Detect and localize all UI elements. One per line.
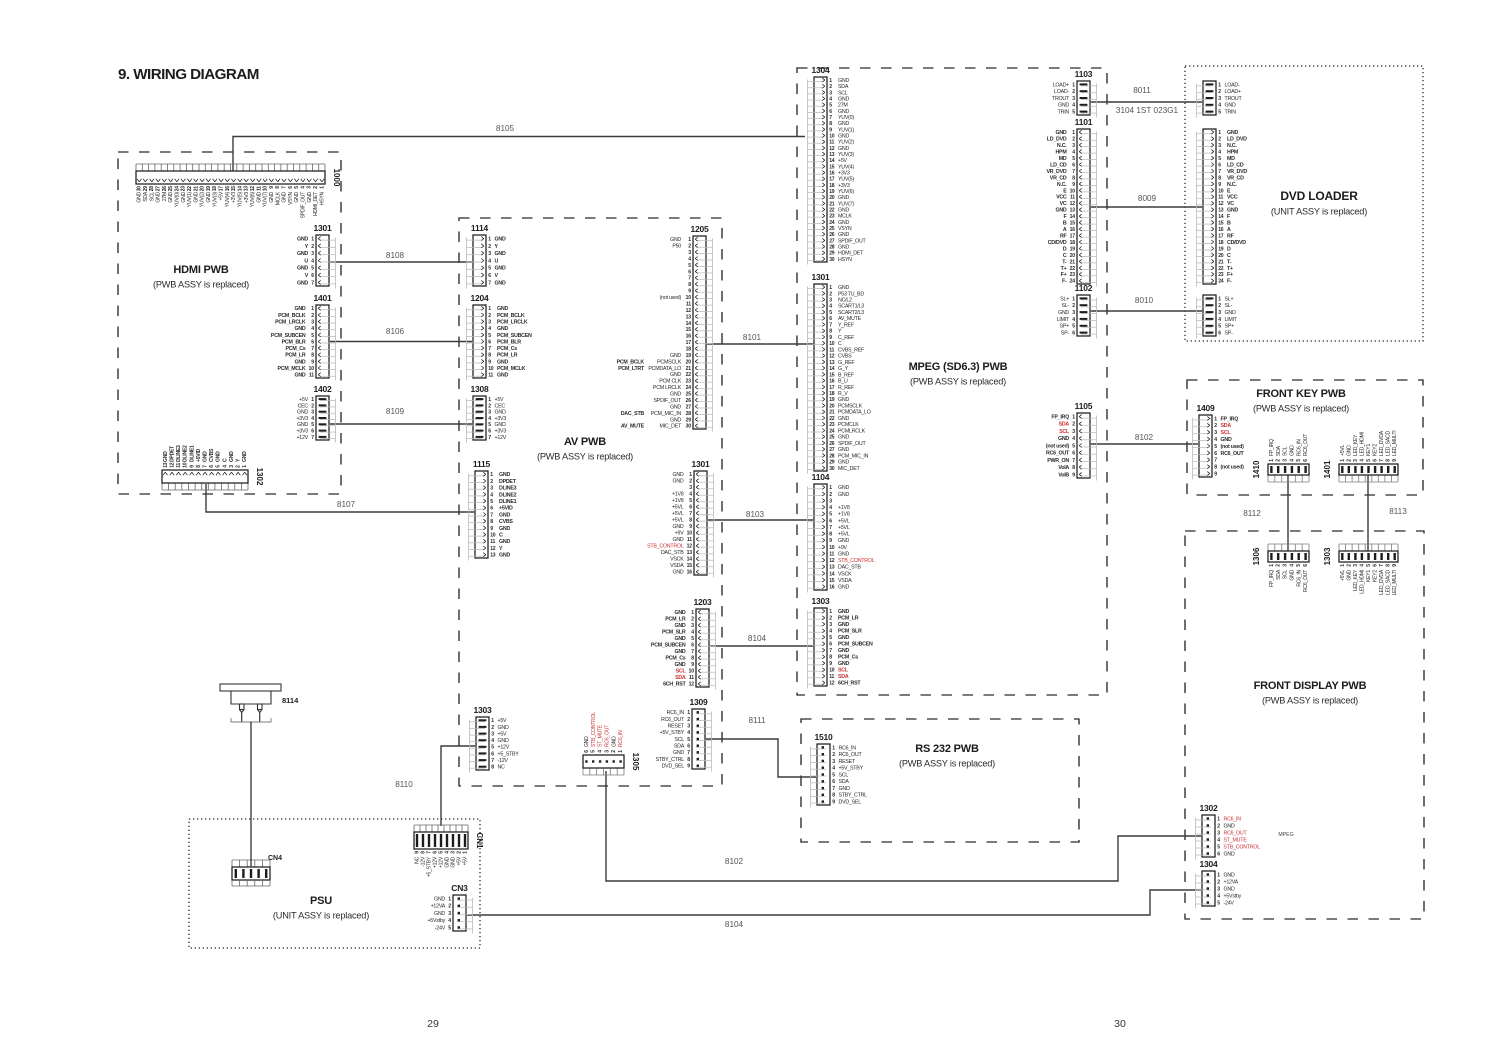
svg-text:DAC_STB: DAC_STB (621, 411, 645, 417)
svg-text:CD/DVD: CD/DVD (1227, 240, 1246, 246)
svg-text:SL+: SL+ (1225, 296, 1234, 302)
svg-text:4: 4 (832, 766, 835, 772)
svg-text:16: 16 (1070, 227, 1076, 233)
svg-text:8: 8 (691, 656, 694, 662)
svg-text:16: 16 (687, 570, 693, 576)
svg-text:+1V8: +1V8 (838, 505, 850, 511)
svg-text:2: 2 (311, 244, 314, 250)
svg-text:25: 25 (829, 226, 835, 232)
svg-text:4: 4 (687, 730, 690, 736)
svg-text:5: 5 (832, 772, 835, 778)
svg-text:SDA: SDA (838, 674, 849, 680)
svg-text:PCM_BCLK: PCM_BCLK (497, 313, 525, 319)
svg-text:PCMDATA_LO: PCMDATA_LO (648, 366, 681, 372)
svg-text:GND: GND (838, 78, 849, 84)
svg-text:13: 13 (244, 186, 250, 192)
svg-text:8: 8 (829, 329, 832, 335)
svg-text:6: 6 (490, 506, 493, 512)
svg-text:16: 16 (1218, 227, 1224, 233)
svg-text:DAC_STB: DAC_STB (838, 565, 861, 571)
block border DVD LOADER (1185, 66, 1423, 341)
svg-text:A: A (1227, 227, 1231, 233)
svg-text:RC6_OUT: RC6_OUT (1303, 570, 1309, 592)
svg-text:TROUT: TROUT (1052, 96, 1070, 102)
svg-text:GND: GND (838, 220, 849, 226)
svg-text:13: 13 (1070, 208, 1076, 214)
svg-text:3: 3 (691, 623, 694, 629)
connector 1309 (656, 697, 712, 772)
svg-text:8101: 8101 (743, 333, 762, 342)
svg-text:(not used): (not used) (660, 295, 682, 301)
svg-text:3: 3 (689, 485, 692, 491)
svg-text:T+: T+ (1061, 266, 1067, 272)
svg-text:MCLK: MCLK (838, 214, 852, 220)
svg-text:GND: GND (838, 622, 849, 628)
svg-text:23: 23 (1070, 272, 1076, 278)
svg-text:8: 8 (689, 518, 692, 524)
svg-text:SDA: SDA (838, 84, 849, 90)
svg-text:(PWB ASSY is replaced): (PWB ASSY is replaced) (1253, 404, 1349, 414)
svg-text:PCM_Cs: PCM_Cs (497, 346, 517, 352)
svg-text:6: 6 (488, 428, 491, 434)
svg-text:GND: GND (1224, 851, 1235, 857)
svg-text:YUV(7): YUV(7) (838, 201, 854, 207)
svg-text:6: 6 (1072, 451, 1075, 457)
svg-text:RC6_OUT: RC6_OUT (1224, 830, 1248, 836)
svg-text:HSYN: HSYN (319, 191, 325, 205)
svg-text:6: 6 (689, 505, 692, 511)
svg-text:GND: GND (1055, 130, 1066, 136)
svg-text:7: 7 (488, 346, 491, 352)
svg-text:13: 13 (829, 360, 835, 366)
svg-text:8109: 8109 (386, 407, 405, 416)
svg-text:1410: 1410 (1252, 460, 1261, 478)
svg-text:6: 6 (488, 273, 491, 279)
svg-text:GND: GND (838, 447, 849, 453)
svg-text:GND: GND (838, 538, 849, 544)
svg-text:LED_KEY: LED_KEY (1353, 569, 1359, 591)
svg-text:5: 5 (688, 263, 691, 269)
svg-text:4: 4 (488, 326, 491, 332)
svg-text:3: 3 (490, 486, 493, 492)
svg-text:6: 6 (311, 273, 314, 279)
svg-text:+5V: +5V (299, 397, 309, 403)
svg-text:2: 2 (311, 313, 314, 319)
svg-text:VSYN: VSYN (288, 191, 294, 204)
svg-text:LIMIT: LIMIT (1057, 317, 1070, 323)
svg-text:6CH_RST: 6CH_RST (838, 681, 861, 687)
svg-text:C: C (1227, 253, 1231, 259)
svg-text:CD/DVD: CD/DVD (1048, 240, 1067, 246)
svg-text:SCART2/L3: SCART2/L3 (838, 310, 864, 316)
svg-text:20: 20 (1070, 253, 1076, 259)
svg-text:8: 8 (1214, 465, 1217, 471)
svg-text:13: 13 (686, 314, 692, 320)
svg-text:NC/L2: NC/L2 (838, 297, 852, 303)
wire 8113 (1367, 475, 1369, 551)
svg-text:CEC: CEC (298, 403, 309, 409)
svg-text:GND: GND (434, 911, 445, 917)
svg-text:GND: GND (495, 410, 506, 416)
svg-text:6: 6 (829, 642, 832, 648)
svg-text:8114: 8114 (282, 696, 299, 705)
svg-text:DPDET: DPDET (169, 445, 175, 462)
svg-text:GND: GND (838, 96, 849, 102)
connector 1301 MPEG (808, 272, 871, 474)
svg-text:22: 22 (829, 416, 835, 422)
svg-text:C: C (838, 341, 842, 347)
svg-text:+5V: +5V (219, 191, 225, 200)
svg-text:16: 16 (686, 334, 692, 340)
svg-text:7: 7 (311, 346, 314, 352)
svg-text:DVD_SEL: DVD_SEL (662, 764, 685, 770)
svg-text:9: 9 (829, 661, 832, 667)
svg-text:PCM_SLR: PCM_SLR (662, 630, 686, 636)
svg-text:12: 12 (490, 546, 496, 552)
svg-text:3: 3 (448, 911, 451, 917)
svg-text:3: 3 (829, 622, 832, 628)
svg-text:27M: 27M (162, 192, 168, 201)
svg-text:4: 4 (488, 258, 491, 264)
svg-text:LIMIT: LIMIT (1225, 317, 1238, 323)
svg-text:+12VA: +12VA (1224, 879, 1239, 885)
svg-text:7: 7 (829, 648, 832, 654)
svg-text:+5V_STBY: +5V_STBY (660, 730, 685, 736)
svg-text:7: 7 (490, 512, 493, 518)
connector 1510 (811, 732, 868, 808)
svg-text:24: 24 (174, 186, 180, 192)
svg-text:24: 24 (1218, 279, 1224, 285)
block border MPEG (SD6.3) PWB (797, 68, 1107, 695)
svg-text:1105: 1105 (1075, 401, 1093, 411)
svg-text:19: 19 (686, 353, 692, 359)
svg-text:7: 7 (687, 750, 690, 756)
svg-text:GND: GND (838, 146, 849, 152)
svg-text:9: 9 (1072, 472, 1075, 478)
svg-text:RESET: RESET (839, 759, 856, 765)
svg-text:+3V3: +3V3 (495, 416, 507, 422)
svg-text:SCL: SCL (839, 772, 849, 778)
svg-text:PCM CLK: PCM CLK (659, 379, 682, 385)
svg-text:YUV(1): YUV(1) (187, 191, 193, 207)
svg-text:GND: GND (838, 492, 849, 498)
svg-text:DLINE3: DLINE3 (176, 445, 182, 462)
svg-text:CVBS: CVBS (838, 354, 852, 360)
svg-text:27: 27 (156, 186, 162, 192)
svg-text:4: 4 (1072, 150, 1075, 156)
svg-text:1308: 1308 (470, 384, 489, 394)
connector 1303 FRONT DISPLAY (1323, 544, 1398, 595)
connector CN3 (427, 883, 472, 934)
svg-text:8111: 8111 (749, 716, 766, 725)
connector 1402 HDMI (296, 384, 335, 443)
svg-text:+5VL: +5VL (672, 505, 684, 511)
svg-text:+5VL: +5VL (838, 532, 850, 538)
wire 8107 (206, 484, 474, 512)
svg-text:17: 17 (219, 186, 225, 192)
svg-text:SCL: SCL (149, 192, 155, 202)
svg-text:KEY2: KEY2 (1373, 444, 1379, 456)
svg-text:GND: GND (670, 404, 681, 410)
svg-text:VCC: VCC (1056, 195, 1067, 201)
svg-text:GND: GND (297, 251, 308, 257)
svg-text:TRIN: TRIN (1058, 110, 1070, 116)
svg-text:4: 4 (1218, 103, 1221, 109)
svg-text:PCM_BCLK: PCM_BCLK (278, 313, 306, 319)
svg-text:VSDA: VSDA (838, 578, 852, 584)
svg-text:SDA: SDA (839, 779, 850, 785)
svg-text:10: 10 (829, 545, 835, 551)
svg-text:LED_SACD: LED_SACD (1386, 431, 1392, 456)
svg-text:7: 7 (488, 280, 491, 286)
svg-text:GND: GND (497, 359, 508, 365)
svg-text:3: 3 (829, 297, 832, 303)
svg-text:+5V: +5V (498, 718, 508, 724)
svg-text:1: 1 (687, 710, 690, 716)
svg-text:SCL: SCL (1283, 570, 1289, 580)
svg-text:19: 19 (1218, 246, 1224, 252)
svg-text:3: 3 (829, 90, 832, 96)
svg-text:1: 1 (488, 237, 491, 243)
svg-text:5: 5 (829, 103, 832, 109)
svg-text:GND: GND (137, 191, 143, 202)
svg-text:6CH_RST: 6CH_RST (663, 682, 686, 688)
svg-text:4: 4 (311, 326, 314, 332)
svg-text:2: 2 (311, 403, 314, 409)
svg-text:YUV(5): YUV(5) (237, 191, 243, 207)
wire 8109 (330, 423, 472, 425)
svg-text:GND: GND (297, 237, 308, 243)
svg-text:1: 1 (1214, 416, 1217, 422)
svg-text:LD_DVD: LD_DVD (1227, 137, 1247, 143)
svg-text:12: 12 (1218, 201, 1224, 207)
svg-text:MD: MD (1059, 156, 1067, 162)
svg-text:+3V3: +3V3 (231, 192, 237, 203)
svg-text:U: U (304, 258, 308, 264)
svg-text:HDMI PWB: HDMI PWB (173, 264, 228, 276)
svg-text:+5Vstby: +5Vstby (427, 918, 445, 924)
svg-text:3: 3 (488, 319, 491, 325)
svg-text:LED_DVDA: LED_DVDA (1379, 430, 1385, 456)
svg-text:6: 6 (1072, 330, 1075, 336)
svg-text:PCM_LRCLK: PCM_LRCLK (275, 319, 306, 325)
svg-text:SCL: SCL (1221, 430, 1232, 436)
svg-text:PCM_MIC_IN: PCM_MIC_IN (838, 453, 869, 459)
svg-text:8: 8 (832, 793, 835, 799)
svg-text:+5VL: +5VL (672, 518, 684, 524)
svg-text:1: 1 (829, 78, 832, 84)
svg-text:5: 5 (1218, 156, 1221, 162)
svg-text:6: 6 (311, 428, 314, 434)
svg-text:7: 7 (832, 786, 835, 792)
svg-text:YUV(2): YUV(2) (200, 191, 206, 207)
svg-text:11: 11 (687, 537, 692, 543)
svg-text:GND: GND (297, 410, 308, 416)
svg-text:2: 2 (491, 725, 494, 731)
svg-text:10: 10 (686, 295, 692, 301)
svg-text:DAC_STB: DAC_STB (661, 550, 684, 556)
svg-text:18: 18 (1070, 240, 1076, 246)
svg-text:7: 7 (311, 435, 314, 441)
svg-text:GND: GND (282, 191, 288, 202)
svg-text:STBY_CTRL: STBY_CTRL (839, 793, 868, 799)
svg-text:GND: GND (498, 738, 509, 744)
svg-text:STB_CONTROL: STB_CONTROL (647, 544, 684, 550)
svg-text:DLINE1: DLINE1 (189, 445, 195, 462)
svg-text:LOAD-: LOAD- (1225, 82, 1240, 88)
svg-text:16: 16 (829, 585, 835, 591)
svg-text:13: 13 (829, 565, 835, 571)
svg-text:5: 5 (1217, 900, 1220, 906)
svg-text:8113: 8113 (1389, 507, 1407, 516)
svg-text:22: 22 (686, 372, 692, 378)
svg-text:RF: RF (1227, 233, 1235, 239)
svg-text:GND: GND (670, 372, 681, 378)
svg-text:GND: GND (1227, 130, 1238, 136)
connector 1305 (583, 712, 640, 775)
svg-text:F+: F+ (1227, 272, 1233, 278)
svg-text:GND: GND (672, 570, 683, 576)
svg-text:10: 10 (829, 133, 835, 139)
svg-text:2: 2 (829, 616, 832, 622)
svg-text:GND: GND (672, 524, 683, 530)
svg-text:1: 1 (488, 397, 491, 403)
svg-text:RS 232 PWB: RS 232 PWB (915, 743, 979, 755)
svg-text:-24V: -24V (1224, 900, 1235, 906)
svg-text:1101: 1101 (1075, 117, 1093, 127)
connector 1302 FRONT DISPLAY (1196, 803, 1261, 860)
svg-text:RC6_IN: RC6_IN (1224, 816, 1242, 822)
svg-text:STB_CONTROL: STB_CONTROL (838, 558, 875, 564)
connector CN4 (232, 860, 270, 880)
svg-text:1304: 1304 (1199, 859, 1218, 869)
svg-text:4: 4 (689, 492, 692, 498)
svg-text:GND: GND (156, 191, 162, 202)
svg-text:29: 29 (686, 417, 692, 423)
svg-text:P50: P50 (672, 244, 681, 250)
svg-text:7: 7 (311, 280, 314, 286)
svg-text:1: 1 (311, 237, 314, 243)
connector CN1 (414, 825, 484, 877)
svg-text:10: 10 (309, 366, 315, 372)
svg-text:8: 8 (491, 765, 494, 771)
svg-text:3: 3 (832, 759, 835, 765)
svg-text:8: 8 (1072, 175, 1075, 181)
svg-text:NC: NC (498, 765, 506, 771)
svg-text:15: 15 (829, 578, 835, 584)
svg-text:12: 12 (829, 558, 835, 564)
svg-text:9: 9 (488, 359, 491, 365)
svg-text:LED_HDMI: LED_HDMI (1359, 570, 1365, 594)
svg-text:1115: 1115 (473, 459, 491, 469)
svg-text:STB_CONTROL: STB_CONTROL (1224, 844, 1261, 850)
svg-text:RC6_OUT: RC6_OUT (1221, 451, 1245, 457)
wire 8009 (1091, 206, 1202, 208)
svg-text:30: 30 (686, 424, 692, 430)
svg-text:11: 11 (829, 551, 834, 557)
svg-text:5: 5 (488, 266, 491, 272)
svg-text:YUV(0): YUV(0) (174, 191, 180, 207)
svg-text:GND: GND (499, 472, 510, 478)
svg-text:8102: 8102 (725, 857, 744, 866)
svg-text:T-: T- (1227, 259, 1232, 265)
svg-text:2: 2 (1217, 823, 1220, 829)
svg-text:14: 14 (687, 557, 693, 563)
svg-text:3: 3 (829, 498, 832, 504)
svg-text:8010: 8010 (1135, 296, 1154, 305)
svg-text:(PWB ASSY is replaced): (PWB ASSY is replaced) (910, 377, 1006, 387)
svg-text:18: 18 (829, 391, 835, 397)
svg-text:VR_DVD: VR_DVD (1047, 169, 1067, 175)
svg-text:LED_MULTI: LED_MULTI (1392, 570, 1398, 595)
svg-text:GND: GND (256, 191, 262, 202)
svg-text:GND: GND (294, 373, 305, 379)
svg-text:GND: GND (307, 191, 313, 202)
svg-text:6: 6 (832, 779, 835, 785)
svg-text:22: 22 (1070, 266, 1076, 272)
svg-text:KEY1: KEY1 (1366, 570, 1372, 582)
block border AV PWB (459, 218, 722, 786)
svg-text:FRONT KEY PWB: FRONT KEY PWB (1256, 388, 1346, 400)
svg-text:7: 7 (829, 525, 832, 531)
svg-text:+5VL: +5VL (672, 511, 684, 517)
svg-text:YUV(4): YUV(4) (225, 191, 231, 207)
svg-text:11: 11 (309, 373, 314, 379)
svg-text:PCMCLK: PCMCLK (838, 422, 859, 428)
block border FRONT KEY PWB (1187, 380, 1423, 495)
svg-text:4: 4 (829, 304, 832, 310)
svg-text:18: 18 (686, 346, 692, 352)
svg-text:3: 3 (1072, 310, 1075, 316)
svg-text:27: 27 (829, 238, 835, 244)
connector 1409 (1193, 403, 1245, 480)
svg-text:20: 20 (829, 403, 835, 409)
svg-text:5: 5 (829, 512, 832, 518)
svg-text:1402: 1402 (313, 384, 332, 394)
svg-text:1: 1 (491, 718, 494, 724)
svg-text:16: 16 (829, 379, 835, 385)
svg-text:11: 11 (176, 463, 182, 468)
svg-text:4: 4 (1072, 103, 1075, 109)
svg-text:SCL: SCL (838, 90, 848, 96)
svg-text:+12V: +12V (296, 435, 308, 441)
svg-text:+5V_STBY: +5V_STBY (839, 766, 864, 772)
svg-text:GND: GND (499, 512, 510, 518)
svg-text:20: 20 (829, 195, 835, 201)
svg-text:6: 6 (688, 269, 691, 275)
svg-text:3: 3 (688, 250, 691, 256)
svg-text:13: 13 (490, 553, 496, 559)
svg-text:B: B (1063, 221, 1067, 227)
svg-text:LD_CD: LD_CD (1227, 162, 1244, 168)
svg-text:RC6_IN: RC6_IN (618, 730, 624, 747)
svg-text:7: 7 (1072, 458, 1075, 464)
svg-text:19: 19 (206, 186, 212, 192)
svg-text:+5VL: +5VL (1340, 570, 1346, 581)
svg-text:GND: GND (838, 195, 849, 201)
svg-text:(PWB ASSY is replaced): (PWB ASSY is replaced) (537, 452, 633, 462)
svg-text:YUV(5): YUV(5) (838, 177, 854, 183)
svg-text:2: 2 (1072, 89, 1075, 95)
svg-text:SDA: SDA (675, 675, 686, 681)
svg-text:YUV(7): YUV(7) (263, 191, 269, 207)
connector 1105 (1046, 401, 1097, 481)
svg-text:8: 8 (1218, 175, 1221, 181)
svg-text:24: 24 (829, 428, 835, 434)
svg-text:PCM_LR: PCM_LR (285, 353, 306, 359)
svg-text:MD: MD (1227, 156, 1235, 162)
svg-text:1301: 1301 (811, 272, 830, 282)
